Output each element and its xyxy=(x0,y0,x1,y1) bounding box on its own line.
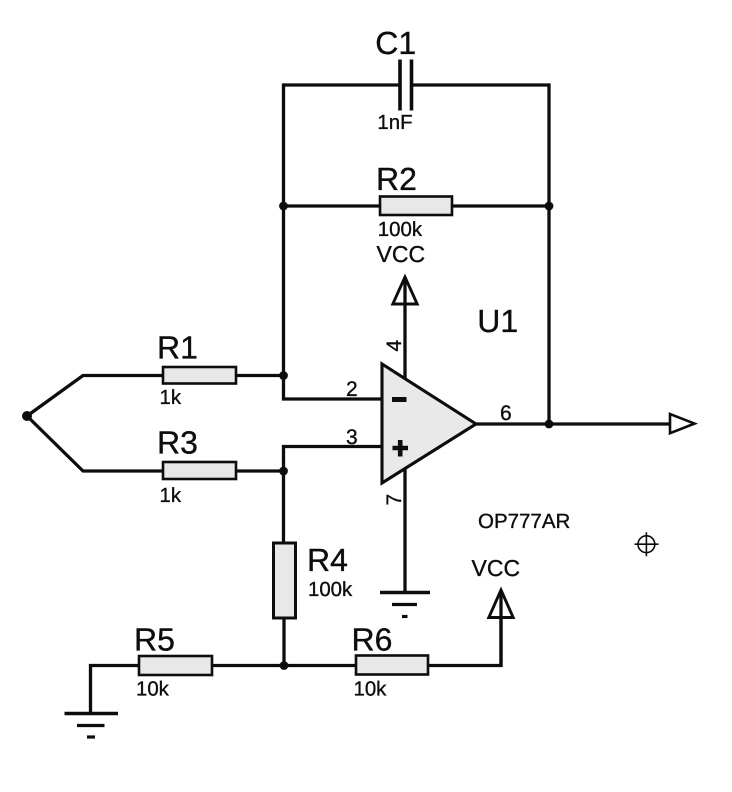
resistor R4 (vertical) xyxy=(274,543,296,618)
svg-text:10k: 10k xyxy=(136,679,170,701)
wire: VCC bias arrow stem xyxy=(499,590,502,667)
svg-text:R6: R6 xyxy=(352,622,393,658)
wire: left ground up and to R5 xyxy=(91,666,140,714)
wire: node down to R4 top xyxy=(282,471,285,543)
op-amp U1 minus input mark xyxy=(392,397,407,402)
resistor R2 xyxy=(380,197,452,216)
svg-text:1nF: 1nF xyxy=(377,112,412,134)
wire: right vertical down to output node xyxy=(547,83,550,424)
junction dot: output node xyxy=(545,420,554,429)
resistor R5 xyxy=(139,656,212,675)
svg-text:R2: R2 xyxy=(376,161,417,197)
power VCC arrow (pin 4) xyxy=(393,277,417,304)
svg-text:VCC: VCC xyxy=(377,241,426,267)
svg-text:1k: 1k xyxy=(160,387,182,409)
wire: top feedback, C1 to right vertical xyxy=(413,83,550,86)
op-amp U1 plus input mark xyxy=(393,440,409,457)
resistor R6 xyxy=(356,656,428,675)
junction dot: R2 left xyxy=(279,202,288,211)
junction dot: R3 / non-inverting column xyxy=(279,467,288,476)
wire: top feedback, left segment to C1 xyxy=(284,83,399,86)
op-amp U1 triangle xyxy=(382,364,476,483)
wire: R5 to bottom node xyxy=(212,664,284,667)
wire: R2 left lead xyxy=(284,204,381,207)
junction dot: R1 / inverting column xyxy=(279,371,288,380)
svg-text:R5: R5 xyxy=(134,622,175,658)
svg-text:10k: 10k xyxy=(354,679,388,701)
ground (U1 pin 7) xyxy=(380,591,430,595)
svg-text:R4: R4 xyxy=(307,542,348,578)
wire: input node diagonal to R1 xyxy=(27,376,163,417)
svg-text:C1: C1 xyxy=(375,25,416,61)
wire: R1 to inverting column xyxy=(236,374,284,377)
node: input terminal dot xyxy=(22,411,32,421)
wire: R4 bottom to bottom node xyxy=(282,618,285,666)
svg-text:100k: 100k xyxy=(378,219,423,241)
svg-text:3: 3 xyxy=(346,426,358,449)
wire: input node diagonal to R3 xyxy=(27,416,163,471)
wire: pin 4 VCC lead xyxy=(403,277,406,379)
svg-text:U1: U1 xyxy=(477,303,518,339)
svg-text:R1: R1 xyxy=(157,330,198,366)
output port arrow xyxy=(670,414,695,433)
svg-text:OP777AR: OP777AR xyxy=(478,510,570,533)
wire: left vertical (feedback column) down to pin 2 xyxy=(284,83,383,399)
wire: R6 right lead up to VCC arrow xyxy=(428,617,501,666)
power VCC arrow (bias, bottom right) xyxy=(489,590,513,618)
svg-text:7: 7 xyxy=(383,494,406,506)
junction dot: R2 right xyxy=(545,202,554,211)
resistor R1 xyxy=(163,367,236,384)
wire: R2 right lead xyxy=(452,204,549,207)
svg-text:100k: 100k xyxy=(308,579,353,601)
reference marker crosshair xyxy=(635,532,659,556)
wire: R3 to non-inverting column xyxy=(236,469,284,472)
svg-text:1k: 1k xyxy=(160,485,182,507)
ground (left, R5) xyxy=(65,712,119,716)
svg-text:2: 2 xyxy=(346,378,358,401)
wire: pin 7 down to ground xyxy=(403,466,406,592)
svg-text:R3: R3 xyxy=(157,425,198,461)
svg-text:6: 6 xyxy=(500,402,512,425)
svg-text:4: 4 xyxy=(383,340,406,352)
wire: bottom node to R6 xyxy=(284,664,356,667)
capacitor C1 xyxy=(400,60,412,111)
wire: output from op-amp tip xyxy=(476,422,670,425)
junction dot: bottom node xyxy=(280,661,289,670)
wire: non-inverting column up to pin 3 xyxy=(284,447,383,472)
svg-text:VCC: VCC xyxy=(472,555,521,581)
resistor R3 xyxy=(163,462,236,479)
